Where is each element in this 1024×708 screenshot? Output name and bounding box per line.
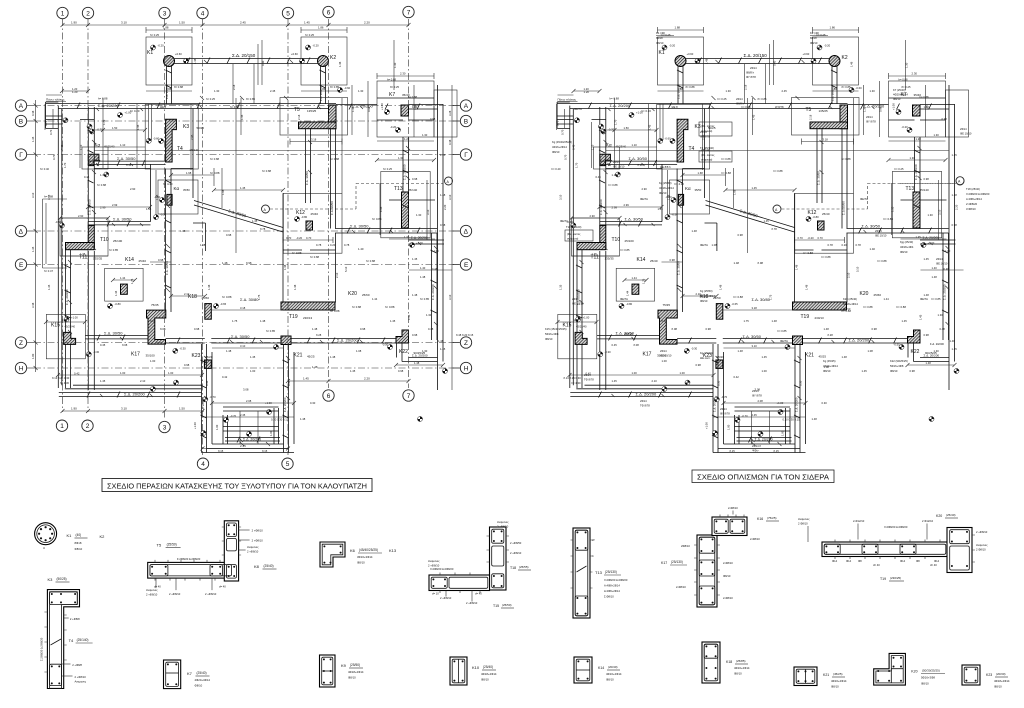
svg-text:2-Φ8/10: 2-Φ8/10 [728,506,738,510]
svg-text:1.45: 1.45 [304,21,310,25]
svg-text:2 +Φ8/10: 2 +Φ8/10 [247,550,259,554]
svg-text:2.45: 2.45 [240,21,246,25]
right plan section cut A extra [900,177,964,185]
svg-text:Σ:2Φ8/20 Δ:2Φ8/20: Σ:2Φ8/20 Δ:2Φ8/20 [40,637,44,661]
svg-text:8Φ18: 8Φ18 [810,36,817,40]
grid bubble 4 top [197,7,208,18]
svg-text:ΦΥ 8/78: ΦΥ 8/78 [720,412,730,416]
svg-text:2Φ8/10: 2Φ8/10 [681,544,690,548]
svg-text:K3: K3 [48,577,54,582]
bottom dim chain 4-5 [201,444,291,451]
west bay outline Delta-E [43,199,68,268]
svg-text:K1: K1 [67,533,73,538]
svg-text:2 +Φ8/10: 2 +Φ8/10 [252,529,264,533]
svg-text:3: 3 [163,424,167,431]
svg-text:A: A [464,103,469,110]
svg-text:ΦΕ 10/10: ΦΕ 10/10 [960,132,972,136]
svg-text:(50/30/25/25): (50/30/25/25) [922,669,940,673]
svg-text:(25/40): (25/40) [483,665,493,669]
svg-text:7: 7 [407,9,411,16]
titles [102,470,834,492]
grid bubble 2 bottom [82,420,93,431]
svg-text:K7 (25/40): K7 (25/40) [893,88,906,92]
section K20L [874,653,945,685]
svg-text:2Φ14: 2Φ14 [584,373,591,377]
svg-text:K10: K10 [472,665,480,670]
svg-text:d= 40: d= 40 [154,585,161,589]
svg-text:ΦΥ 8/78: ΦΥ 8/78 [746,75,756,79]
svg-text:Φ8/10: Φ8/10 [723,574,731,578]
svg-text:2Φ14: 2Φ14 [936,257,943,261]
svg-text:1.50: 1.50 [179,407,185,411]
svg-text:K13: K13 [389,548,397,553]
svg-text:4Φ16+4Φ14: 4Φ16+4Φ14 [606,672,622,676]
svg-text:Φ14: Φ14 [846,559,852,563]
svg-text:(Φε. λοιπες: (Φε. λοιπες [701,153,715,157]
svg-text:2 +Φ8/10: 2 +Φ8/10 [252,539,264,543]
svg-text:T15: T15 [493,604,499,608]
svg-text:K20: K20 [911,670,917,674]
svg-text:T18: T18 [510,566,516,570]
svg-text:Φ8/10: Φ8/10 [552,150,560,154]
left outer dim chain [31,100,67,372]
svg-text:8Φ18: 8Φ18 [656,36,663,40]
svg-text:Φ14: Φ14 [832,559,838,563]
svg-text:d= 40: d= 40 [873,563,880,567]
svg-text:ΨΦ/ν: ΨΦ/ν [752,449,759,453]
grid bubble 5 bottom [282,458,293,469]
svg-text:4Φ18+4Φ14: 4Φ18+4Φ14 [659,186,674,190]
svg-text:Φ8/10: Φ8/10 [831,685,839,689]
svg-text:W: W [592,538,595,542]
svg-text:2 +Φ8/10: 2 +Φ8/10 [466,601,478,605]
section K17 K16 group [661,506,779,607]
svg-text:(230/25): (230/25) [890,576,901,580]
svg-text:6: 6 [327,393,331,400]
svg-text:3.10: 3.10 [448,294,452,300]
svg-text:ΦΕ 10/10: ΦΕ 10/10 [572,302,584,306]
svg-text:3.48: 3.48 [31,302,35,308]
svg-text:2 +Φ8/50: 2 +Φ8/50 [510,541,522,545]
svg-text:2Φ14: 2Φ14 [960,127,967,131]
svg-text:Δ: Δ [464,228,469,235]
svg-text:Φ8/10: Φ8/10 [893,97,901,101]
svg-text:2Φ14: 2Φ14 [613,160,620,164]
svg-text:T4: T4 [69,638,74,643]
svg-text:Φ8/10: Φ8/10 [734,672,742,676]
svg-text:ΤΦ 8/78: ΤΦ 8/78 [640,404,650,408]
svg-text:K2 (40): K2 (40) [810,31,819,35]
right inner dim chain [448,85,474,390]
svg-text:2 +Φ8/10: 2 +Φ8/10 [75,675,87,679]
svg-text:ΦΕ 10/10: ΦΕ 10/10 [613,165,625,169]
svg-text:Φ14: Φ14 [934,559,940,563]
section K18b [702,642,750,683]
svg-text:1: 1 [60,423,64,430]
svg-text:Kg (25/50): Kg (25/50) [659,181,672,185]
svg-text:0.48: 0.48 [31,110,35,116]
svg-text:4Φ18+4Φ4: 4Φ18+4Φ4 [900,245,914,249]
svg-text:4Φ16+2Φ14: 4Φ16+2Φ14 [552,145,567,149]
svg-text:2Φ14 θ: 2Φ14 θ [752,444,761,448]
svg-text:Φ8/10: Φ8/10 [481,678,489,682]
svg-text:E: E [19,262,24,269]
svg-text:2Φ14: 2Φ14 [572,297,579,301]
svg-text:2 +Φ8/10: 2 +Φ8/10 [976,530,988,534]
svg-text:Φ8/10: Φ8/10 [921,682,929,686]
svg-text:(25/130): (25/130) [605,570,617,574]
svg-text:2 Φ8/10: 2 Φ8/10 [798,522,808,526]
svg-text:2 +Φ8/8: 2 +Φ8/8 [72,663,82,667]
svg-text:Δ: Δ [19,228,24,235]
svg-text:1.90: 1.90 [71,407,77,411]
svg-text:1.35: 1.35 [31,246,35,252]
svg-text:Kg (45/25): Kg (45/25) [823,359,836,363]
svg-text:U: U [43,546,45,550]
svg-text:B: B [464,118,468,125]
svg-text:4: 4 [201,10,205,17]
svg-text:Φ8/10: Φ8/10 [700,299,708,303]
svg-text:Φ8/10: Φ8/10 [195,684,203,688]
svg-text:Τ4 (25/140): Τ4 (25/140) [700,146,714,150]
svg-text:K20: K20 [936,514,942,518]
svg-text:Σ:Φ8/10: Σ:Φ8/10 [604,595,614,599]
svg-text:7: 7 [407,393,411,400]
svg-text:E: E [464,262,469,269]
svg-text:(45/25): (45/25) [833,672,843,676]
section K7 [164,660,211,689]
svg-text:Φ8/10: Φ8/10 [545,337,553,341]
svg-text:Φ8/10: Φ8/10 [994,685,1002,689]
svg-text:Αναμονες: Αναμονες [798,517,810,521]
svg-text:2 +Φ8/10: 2 +Φ8/10 [169,592,181,596]
svg-text:(25/130): (25/130) [671,560,683,564]
svg-text:4Φ16+4Φ14: 4Φ16+4Φ14 [823,364,838,368]
svg-text:ΦΕ 10/10: ΦΕ 10/10 [660,354,672,358]
svg-text:H: H [464,365,469,372]
svg-text:6: 6 [327,9,331,16]
svg-text:Φ8/8 h: Φ8/8 h [746,71,755,75]
svg-text:2Φ14: 2Φ14 [875,229,882,233]
svg-text:Φ8/10: Φ8/10 [348,676,356,680]
svg-text:5Φ16+3Φ8: 5Φ16+3Φ8 [921,676,935,680]
svg-text:Φ8/10: Φ8/10 [75,547,83,551]
svg-text:T13: T13 [595,570,603,575]
svg-text:Γ: Γ [464,152,468,159]
svg-text:d= 40: d= 40 [930,563,937,567]
grid lines vertical left plan [63,19,409,455]
svg-text:0.48: 0.48 [448,139,452,145]
svg-text:2-Φ12/10: 2-Φ12/10 [853,519,865,523]
svg-text:H: H [19,365,24,372]
svg-text:(75/25): (75/25) [767,516,777,520]
svg-text:4Φ16+4Φ14: 4Φ16+4Φ14 [831,679,847,683]
section T19 K20 long beam [798,513,988,581]
section T13 tall [571,528,628,618]
top dimension chain [61,21,411,28]
svg-text:T18 (25/40): T18 (25/40) [966,187,980,191]
svg-text:d= 40: d= 40 [475,592,482,596]
svg-text:2: 2 [86,423,90,430]
svg-text:2-Φ8/10: 2-Φ8/10 [723,561,733,565]
svg-text:8Φ18: 8Φ18 [75,541,82,545]
svg-text:(Φε. λοιπες: (Φε. λοιπες [701,124,715,128]
svg-text:1: 1 [61,10,65,17]
svg-text:Αναμονες: Αναμονες [146,588,158,592]
svg-text:2 +Φ8/10: 2 +Φ8/10 [428,564,440,568]
section K1 circular [35,523,106,551]
svg-text:ΦΕ 10/10: ΦΕ 10/10 [936,262,948,266]
svg-text:4Φ18+4Φ14: 4Φ18+4Φ14 [481,672,497,676]
svg-text:ΣΧΕΔΙΟ ΟΠΛΙΣΜΩΝ ΓΙΑ ΤΟΝ ΣΙ: ΣΧΕΔΙΟ ΟΠΛΙΣΜΩΝ ΓΙΑ ΤΟΝ ΣΙΔΕΡΑ [697,475,829,482]
svg-text:3.10: 3.10 [31,192,35,198]
grid bubble 7 top [403,6,414,17]
svg-text:1.50: 1.50 [179,21,185,25]
svg-text:2Φ14: 2Φ14 [640,399,647,403]
svg-text:3.28: 3.28 [448,110,452,116]
svg-text:Φ8/8 h: Φ8/8 h [736,102,745,106]
svg-text:Α:4Φ8+2Φ14: Α:4Φ8+2Φ14 [966,197,982,201]
svg-text:K7: K7 [187,671,193,676]
svg-text:2 +Φ8/10: 2 +Φ8/10 [146,593,158,597]
grid bubble 7 bottom [403,390,414,401]
svg-text:2 Φ8/10: 2 Φ8/10 [976,548,986,552]
svg-text:Φ8: Φ8 [916,559,920,563]
svg-text:2.45: 2.45 [240,444,246,448]
svg-text:4Φ18+4Φ14: 4Φ18+4Φ14 [994,679,1010,683]
svg-text:K15 (45/40/25/25): K15 (45/40/25/25) [545,327,567,331]
section T5 K8 L-beam [146,521,277,597]
svg-text:K9: K9 [341,663,347,668]
grid bubble 2 top [82,7,93,18]
svg-text:K18: K18 [726,660,732,664]
grid bubble 1 bottom [56,420,67,431]
grid bubble 1 top [57,7,68,18]
svg-text:K8: K8 [254,564,260,569]
svg-text:(25/55): (25/55) [519,565,529,569]
svg-text:4Φ16+4Φ14: 4Φ16+4Φ14 [734,666,750,670]
svg-text:Δ:4Φ8+2Φ14: Δ:4Φ8+2Φ14 [604,589,620,593]
svg-text:d= 40: d= 40 [219,585,226,589]
svg-text:Φ8/10: Φ8/10 [843,307,851,311]
svg-text:2Φ14: 2Φ14 [660,349,667,353]
svg-text:(50/25): (50/25) [57,577,67,581]
right letter bubbles [453,100,472,111]
svg-text:(45/40/25/25): (45/40/25/25) [359,548,378,552]
svg-text:Φ8/10: Φ8/10 [890,369,898,373]
svg-text:K6: K6 [350,548,356,553]
svg-text:1.90: 1.90 [71,21,77,25]
grid bubble 3 top [159,7,170,18]
svg-text:T5: T5 [157,543,162,548]
svg-text:2-Φ8/10: 2-Φ8/10 [676,585,686,589]
svg-text:ΦΕ/ΤΑ: ΦΕ/ΤΑ [860,197,868,201]
svg-text:Αναμονες: Αναμονες [976,543,988,547]
svg-text:K23: K23 [986,673,992,677]
svg-text:Φ8/10: Φ8/10 [900,250,908,254]
svg-text:4Φ20+4Φ14: 4Φ20+4Φ14 [195,678,211,682]
svg-text:2 +Φ8/10: 2 +Φ8/10 [205,592,217,596]
svg-text:4: 4 [201,461,205,468]
svg-text:(Φε. λοιπες: (Φε. λοιπες [567,232,581,236]
svg-text:ΦΥ 8/78: ΦΥ 8/78 [752,394,762,398]
left letter bubbles [15,100,34,111]
svg-text:2Φ14: 2Φ14 [700,130,707,134]
svg-text:2Φ14: 2Φ14 [736,97,743,101]
svg-text:2-Φ8/10: 2-Φ8/10 [750,537,760,541]
svg-text:K22 (90/25/25): K22 (90/25/25) [890,359,908,363]
svg-text:2 +Φ8/10: 2 +Φ8/10 [510,551,522,555]
svg-text:ΦΕ/ΤΑ: ΦΕ/ΤΑ [560,219,568,223]
svg-text:5Φ16+3Φ8: 5Φ16+3Φ8 [890,364,904,368]
title left [102,479,372,492]
svg-text:2 +Φ8/10: 2 +Φ8/10 [440,596,452,600]
svg-text:(25/50): (25/50) [350,663,360,667]
svg-text:Σ.Δ. 20/200: Σ.Δ. 20/200 [930,342,944,346]
svg-text:K14: K14 [598,666,604,670]
svg-text:ΦΕ/ΤΑ: ΦΕ/ΤΑ [920,297,928,301]
svg-text:ΤΦ 8/78: ΤΦ 8/78 [584,378,594,382]
svg-text:1.80: 1.80 [31,353,35,359]
svg-text:3:Φ8/10: 3:Φ8/10 [966,207,976,211]
svg-text:T19: T19 [880,577,886,581]
grid bubble 5 top [282,7,293,18]
svg-text:2 Φ12/10: 2 Φ12/10 [922,519,934,523]
svg-text:Χ:2Φ8/20 Δ:2Φ8/20: Χ:2Φ8/20 Δ:2Φ8/20 [884,525,908,529]
svg-text:ΦΕ/ΤΑ: ΦΕ/ΤΑ [780,339,788,343]
svg-text:h= 0.47: h= 0.47 [44,269,54,273]
svg-text:K1 (40): K1 (40) [656,31,665,35]
svg-text:4Φ18+4Φ14: 4Φ18+4Φ14 [843,302,858,306]
svg-text:Χ:2Φ8/20 Δ:2Φ8/20: Χ:2Φ8/20 Δ:2Φ8/20 [430,567,454,571]
svg-text:K17: K17 [661,561,667,565]
bottom dim chain 1-3 [61,407,205,414]
svg-text:Φ8/10: Φ8/10 [606,678,614,682]
svg-text:2Φ14: 2Φ14 [720,407,727,411]
svg-text:(25/50): (25/50) [502,603,512,607]
svg-text:5: 5 [286,10,290,17]
svg-text:(25/40): (25/40) [946,513,956,517]
svg-text:h= 0.88: h= 0.88 [44,195,54,199]
section K3 T4 tall [40,577,93,689]
svg-text:(25/85): (25/85) [736,659,746,663]
svg-text:2:4Φ8/20: 2:4Φ8/20 [966,202,978,206]
svg-text:ΦΥ 8/78: ΦΥ 8/78 [866,120,876,124]
svg-text:1.35: 1.35 [31,136,35,142]
svg-text:5Φ16+3Φ8: 5Φ16+3Φ8 [545,332,559,336]
section K14 [574,657,622,683]
right plan extra rebar notes [656,31,674,45]
svg-text:ΦΕ/ΤΑ: ΦΕ/ΤΑ [574,107,582,111]
svg-text:Γ: Γ [19,152,23,159]
svg-text:Kg (45/40/25/25): Kg (45/40/25/25) [552,140,572,144]
grid bubble 3 bottom [159,421,170,432]
svg-text:Χ:2Φ8/20 Δ:2Φ8/20: Χ:2Φ8/20 Δ:2Φ8/20 [966,192,990,196]
svg-text:3.10: 3.10 [121,407,127,411]
right plan: reinforcement drawing [552,26,969,454]
svg-text:2Φ14: 2Φ14 [866,115,873,119]
svg-text:2 +Φ8/8: 2 +Φ8/8 [70,617,80,621]
svg-text:2.20: 2.20 [364,21,370,25]
svg-text:(40): (40) [76,533,82,537]
svg-text:Φ8/10: Φ8/10 [656,41,664,45]
svg-text:Φ8/10: Φ8/10 [823,369,831,373]
svg-text:d= 10: d= 10 [432,592,439,596]
svg-text:4Φ20+4Φ14: 4Φ20+4Φ14 [893,93,908,97]
svg-text:3.10: 3.10 [121,21,127,25]
svg-text:(20/30): (20/30) [996,672,1006,676]
svg-text:K20 (25/40): K20 (25/40) [843,297,857,301]
svg-text:B: B [19,118,23,125]
svg-text:ΦΕ/ΤΑ: ΦΕ/ΤΑ [620,297,628,301]
svg-text:Kg (25/50): Kg (25/50) [700,289,713,293]
section K10 [450,657,497,685]
grid bubble 4 bottom [197,458,208,469]
svg-text:ΘΕ 8/8 h: ΘΕ 8/8 h [660,165,671,169]
svg-text:2-Φ8/10: 2-Φ8/10 [723,596,733,600]
section T15 T18 L [428,520,531,608]
svg-text:(25/140): (25/140) [77,638,89,642]
svg-text:Φ8/10: Φ8/10 [810,41,818,45]
svg-text:A: A [19,103,24,110]
svg-text:(25/50): (25/50) [167,543,177,547]
svg-text:ΦΥ 8/78: ΦΥ 8/78 [700,135,710,139]
svg-text:Σ:2Φ8/20 Δ:2Φ8/20: Σ:2Φ8/20 Δ:2Φ8/20 [177,557,201,561]
svg-text:Z: Z [464,340,468,347]
svg-text:Φ8/10: Φ8/10 [659,191,667,195]
grid bubble 6 top [323,6,334,17]
grid lines horizontal left plan [34,106,460,369]
svg-text:Kg (25/40): Kg (25/40) [700,351,713,355]
svg-text:4Φ18+4Φ14: 4Φ18+4Φ14 [348,670,364,674]
svg-text:Αναμονες: Αναμονες [75,680,87,684]
section K9 [320,655,364,687]
svg-text:Αναμονες: Αναμονες [497,520,509,524]
svg-text:5: 5 [286,461,290,468]
svg-text:2Φ14: 2Φ14 [750,66,757,70]
svg-text:Α:4Φ8+2Φ14: Α:4Φ8+2Φ14 [604,584,620,588]
svg-text:ανάμεσα): ανάμεσα) [701,158,712,162]
svg-text:Φ8/10: Φ8/10 [357,561,365,565]
svg-text:Φ8: Φ8 [858,559,862,563]
svg-text:4Φ18+4Φ14: 4Φ18+4Φ14 [700,294,715,298]
svg-text:2Φ8/20: 2Φ8/20 [624,332,633,336]
svg-text:θ.48 θ.20 θ.15: θ.48 θ.20 θ.15 [456,333,474,337]
svg-text:ΦΕ/ΤΑ: ΦΕ/ΤΑ [700,243,708,247]
section K6 K13 L [320,542,397,567]
svg-text:K2: K2 [100,534,106,539]
svg-text:3.10: 3.10 [448,194,452,200]
svg-text:ανάμεσα): ανάμεσα) [567,237,578,241]
svg-text:ΦΕ/ΤΑ: ΦΕ/ΤΑ [640,197,648,201]
left plan: formwork drawing [40,26,457,454]
svg-text:3: 3 [163,10,167,17]
svg-text:Φ14: Φ14 [900,559,906,563]
svg-text:4: 4 [592,554,594,558]
svg-text:ΦΕ 10/10: ΦΕ 10/10 [875,234,887,238]
svg-text:(20/40): (20/40) [608,665,618,669]
section K21 [794,667,847,689]
svg-text:(25/40): (25/40) [264,564,274,568]
svg-text:Z: Z [19,340,23,347]
bottom dim chain 6-7 [286,377,411,384]
section K23 [962,665,1010,689]
svg-text:2Φ14: 2Φ14 [752,389,759,393]
svg-text:Χ:2Φ8/20 Δ:2Φ8/20: Χ:2Φ8/20 Δ:2Φ8/20 [604,578,628,582]
svg-text:K16: K16 [757,517,763,521]
grid bubble 6 bottom [323,390,334,401]
svg-text:3Φ16+3Φ14: 3Φ16+3Φ14 [357,555,373,559]
